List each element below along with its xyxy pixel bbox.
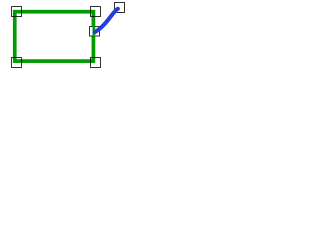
- green edge sliver over handle: [93, 26, 96, 37]
- green rectangle: [15, 12, 94, 61]
- blue line: [95, 9, 118, 32]
- selection handle upper endpoint of line: [115, 3, 125, 13]
- selection handle bottom-right of rectangle: [91, 58, 101, 68]
- selection handle lower endpoint of line: [90, 27, 100, 37]
- selection handle bottom-left of rectangle: [12, 58, 22, 68]
- selection handle top-left of rectangle: [12, 7, 22, 17]
- selection handle top-right of rectangle: [91, 7, 101, 17]
